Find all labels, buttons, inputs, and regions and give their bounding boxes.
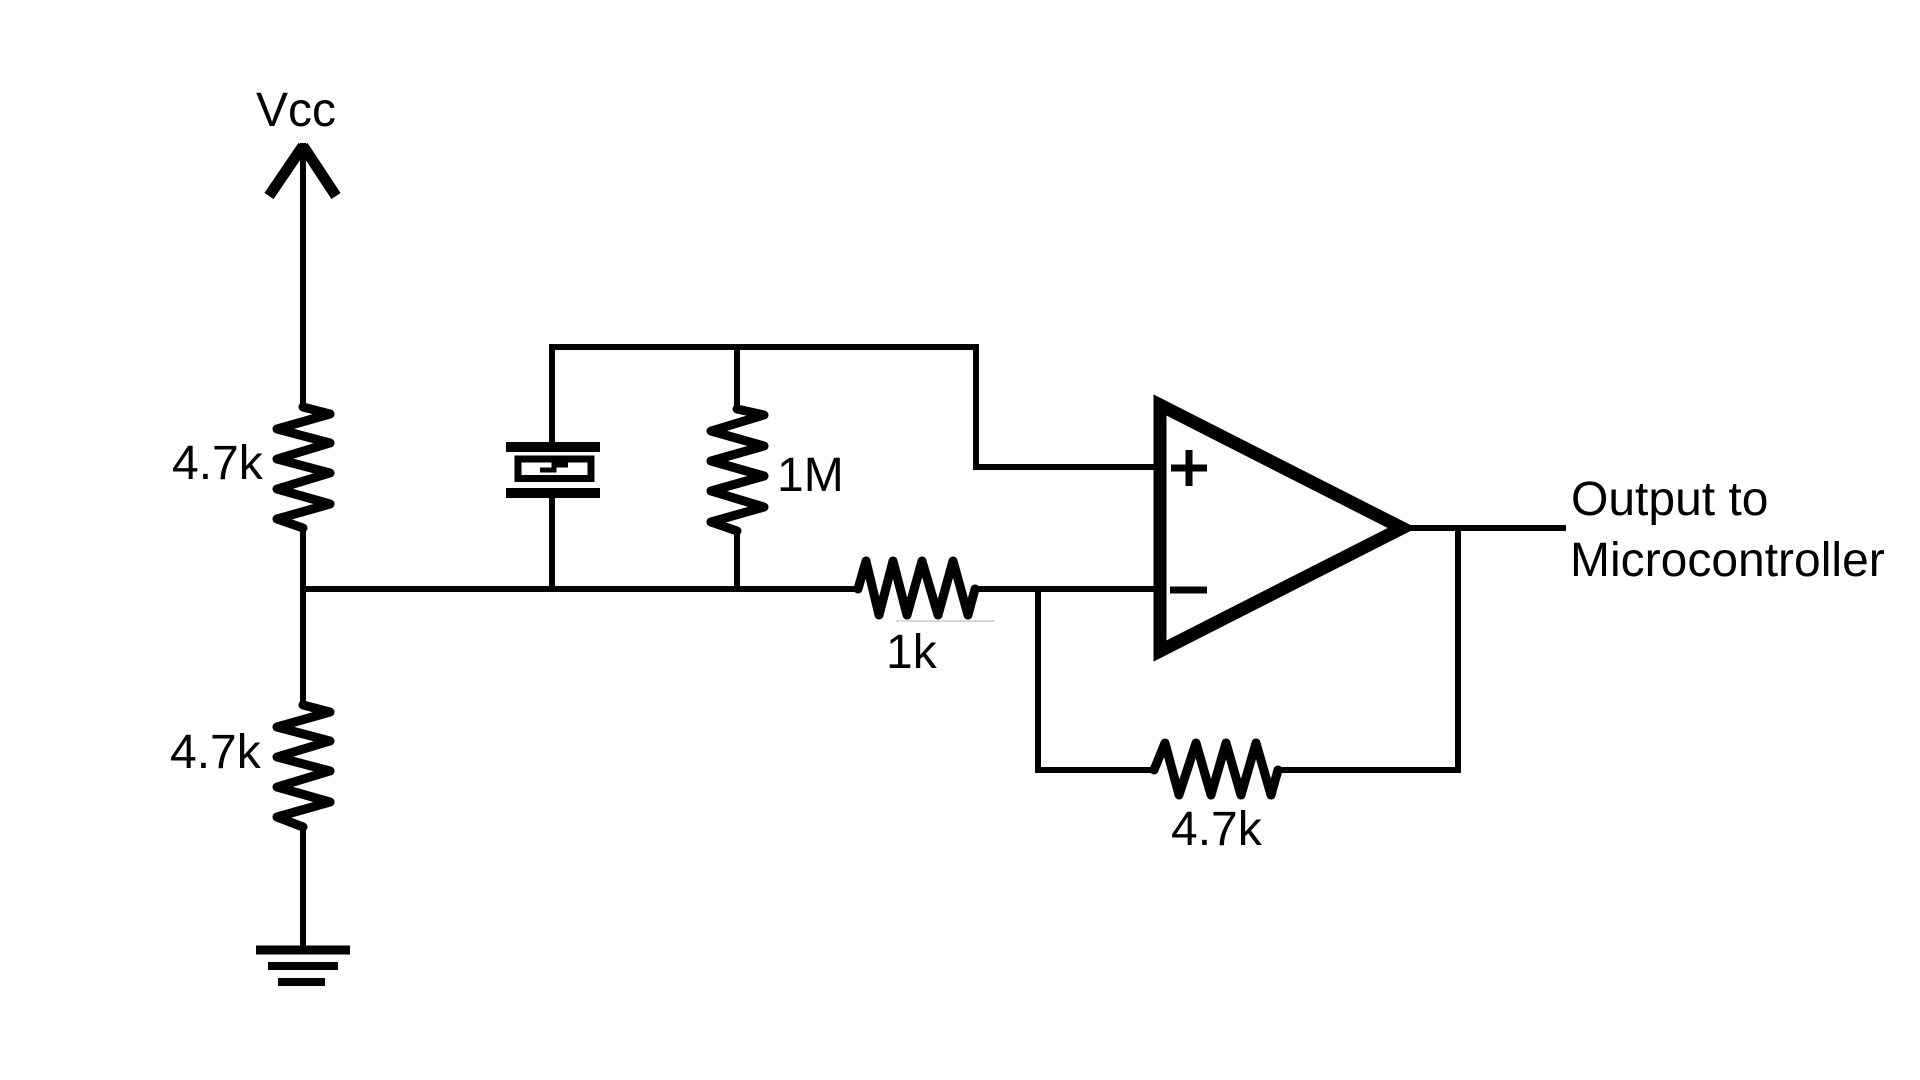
svg-text:4.7k: 4.7k [1171,803,1263,856]
svg-text:Microcontroller: Microcontroller [1570,534,1885,587]
wire middle rail R1 to R2 [300,527,306,706]
wire 1M top stub [734,347,740,410]
resistor R1 4.7k (top of divider) [277,407,330,528]
wire piezo bottom to mid node [549,496,555,589]
op-amp minus input marker [1170,587,1207,594]
svg-text:4.7k: 4.7k [172,437,264,490]
svg-text:1M: 1M [777,449,844,502]
resistor R2 4.7k (bottom of divider) [277,705,330,827]
op-amp U1 [1160,405,1402,651]
resistor R5 4.7k (feedback) [1154,743,1278,795]
ground [256,950,350,982]
wire mid node horizontal (divider node to 1k) [303,586,858,592]
wire feedback left branch down and right [1038,589,1155,770]
wire piezo top + top feedback rail + down to non-inverting input [552,347,1158,467]
wire 1M bottom stub to mid node [734,530,740,589]
wire 1k to inverting input [974,586,1158,592]
resistor R3 1M [711,409,764,531]
svg-text:4.7k: 4.7k [170,726,262,779]
wire R2 to ground [300,826,306,948]
svg-text:Vcc: Vcc [256,84,336,137]
resistor R4 1k (series input) [858,561,975,615]
artifact faint line under 1k [896,620,995,622]
svg-text:1k: 1k [886,626,938,679]
power symbol Vcc arrow [269,143,336,408]
svg-text:Output to: Output to [1571,473,1768,526]
piezo element (sensor) [506,447,600,493]
wire feedback right branch to output [1277,528,1458,770]
wire output [1400,525,1566,531]
op-amp plus input marker [1171,450,1207,486]
